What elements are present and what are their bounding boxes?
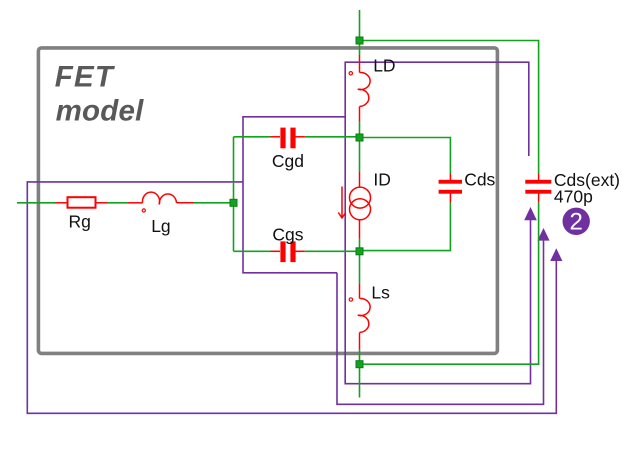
svg-text:LD: LD: [373, 56, 395, 76]
svg-text:Cgs: Cgs: [272, 224, 303, 244]
svg-text:model: model: [56, 95, 144, 128]
svg-text:ID: ID: [373, 170, 391, 190]
svg-text:Cgd: Cgd: [272, 151, 304, 171]
svg-text:470p: 470p: [554, 186, 593, 206]
svg-text:2: 2: [570, 209, 583, 236]
svg-text:Rg: Rg: [69, 211, 91, 231]
svg-text:Cds: Cds: [464, 170, 495, 190]
svg-text:FET: FET: [55, 60, 116, 93]
svg-text:Ls: Ls: [371, 283, 390, 303]
svg-text:Lg: Lg: [151, 216, 170, 236]
